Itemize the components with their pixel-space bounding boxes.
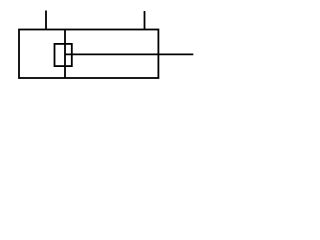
cylinder barrel (body rectangle) — [19, 30, 158, 79]
port stem left — [45, 11, 47, 30]
piston rod — [65, 53, 193, 55]
port stem right — [144, 11, 146, 30]
cushion block rectangle on piston — [55, 44, 72, 66]
piston (vertical line full bore height) — [64, 30, 66, 79]
